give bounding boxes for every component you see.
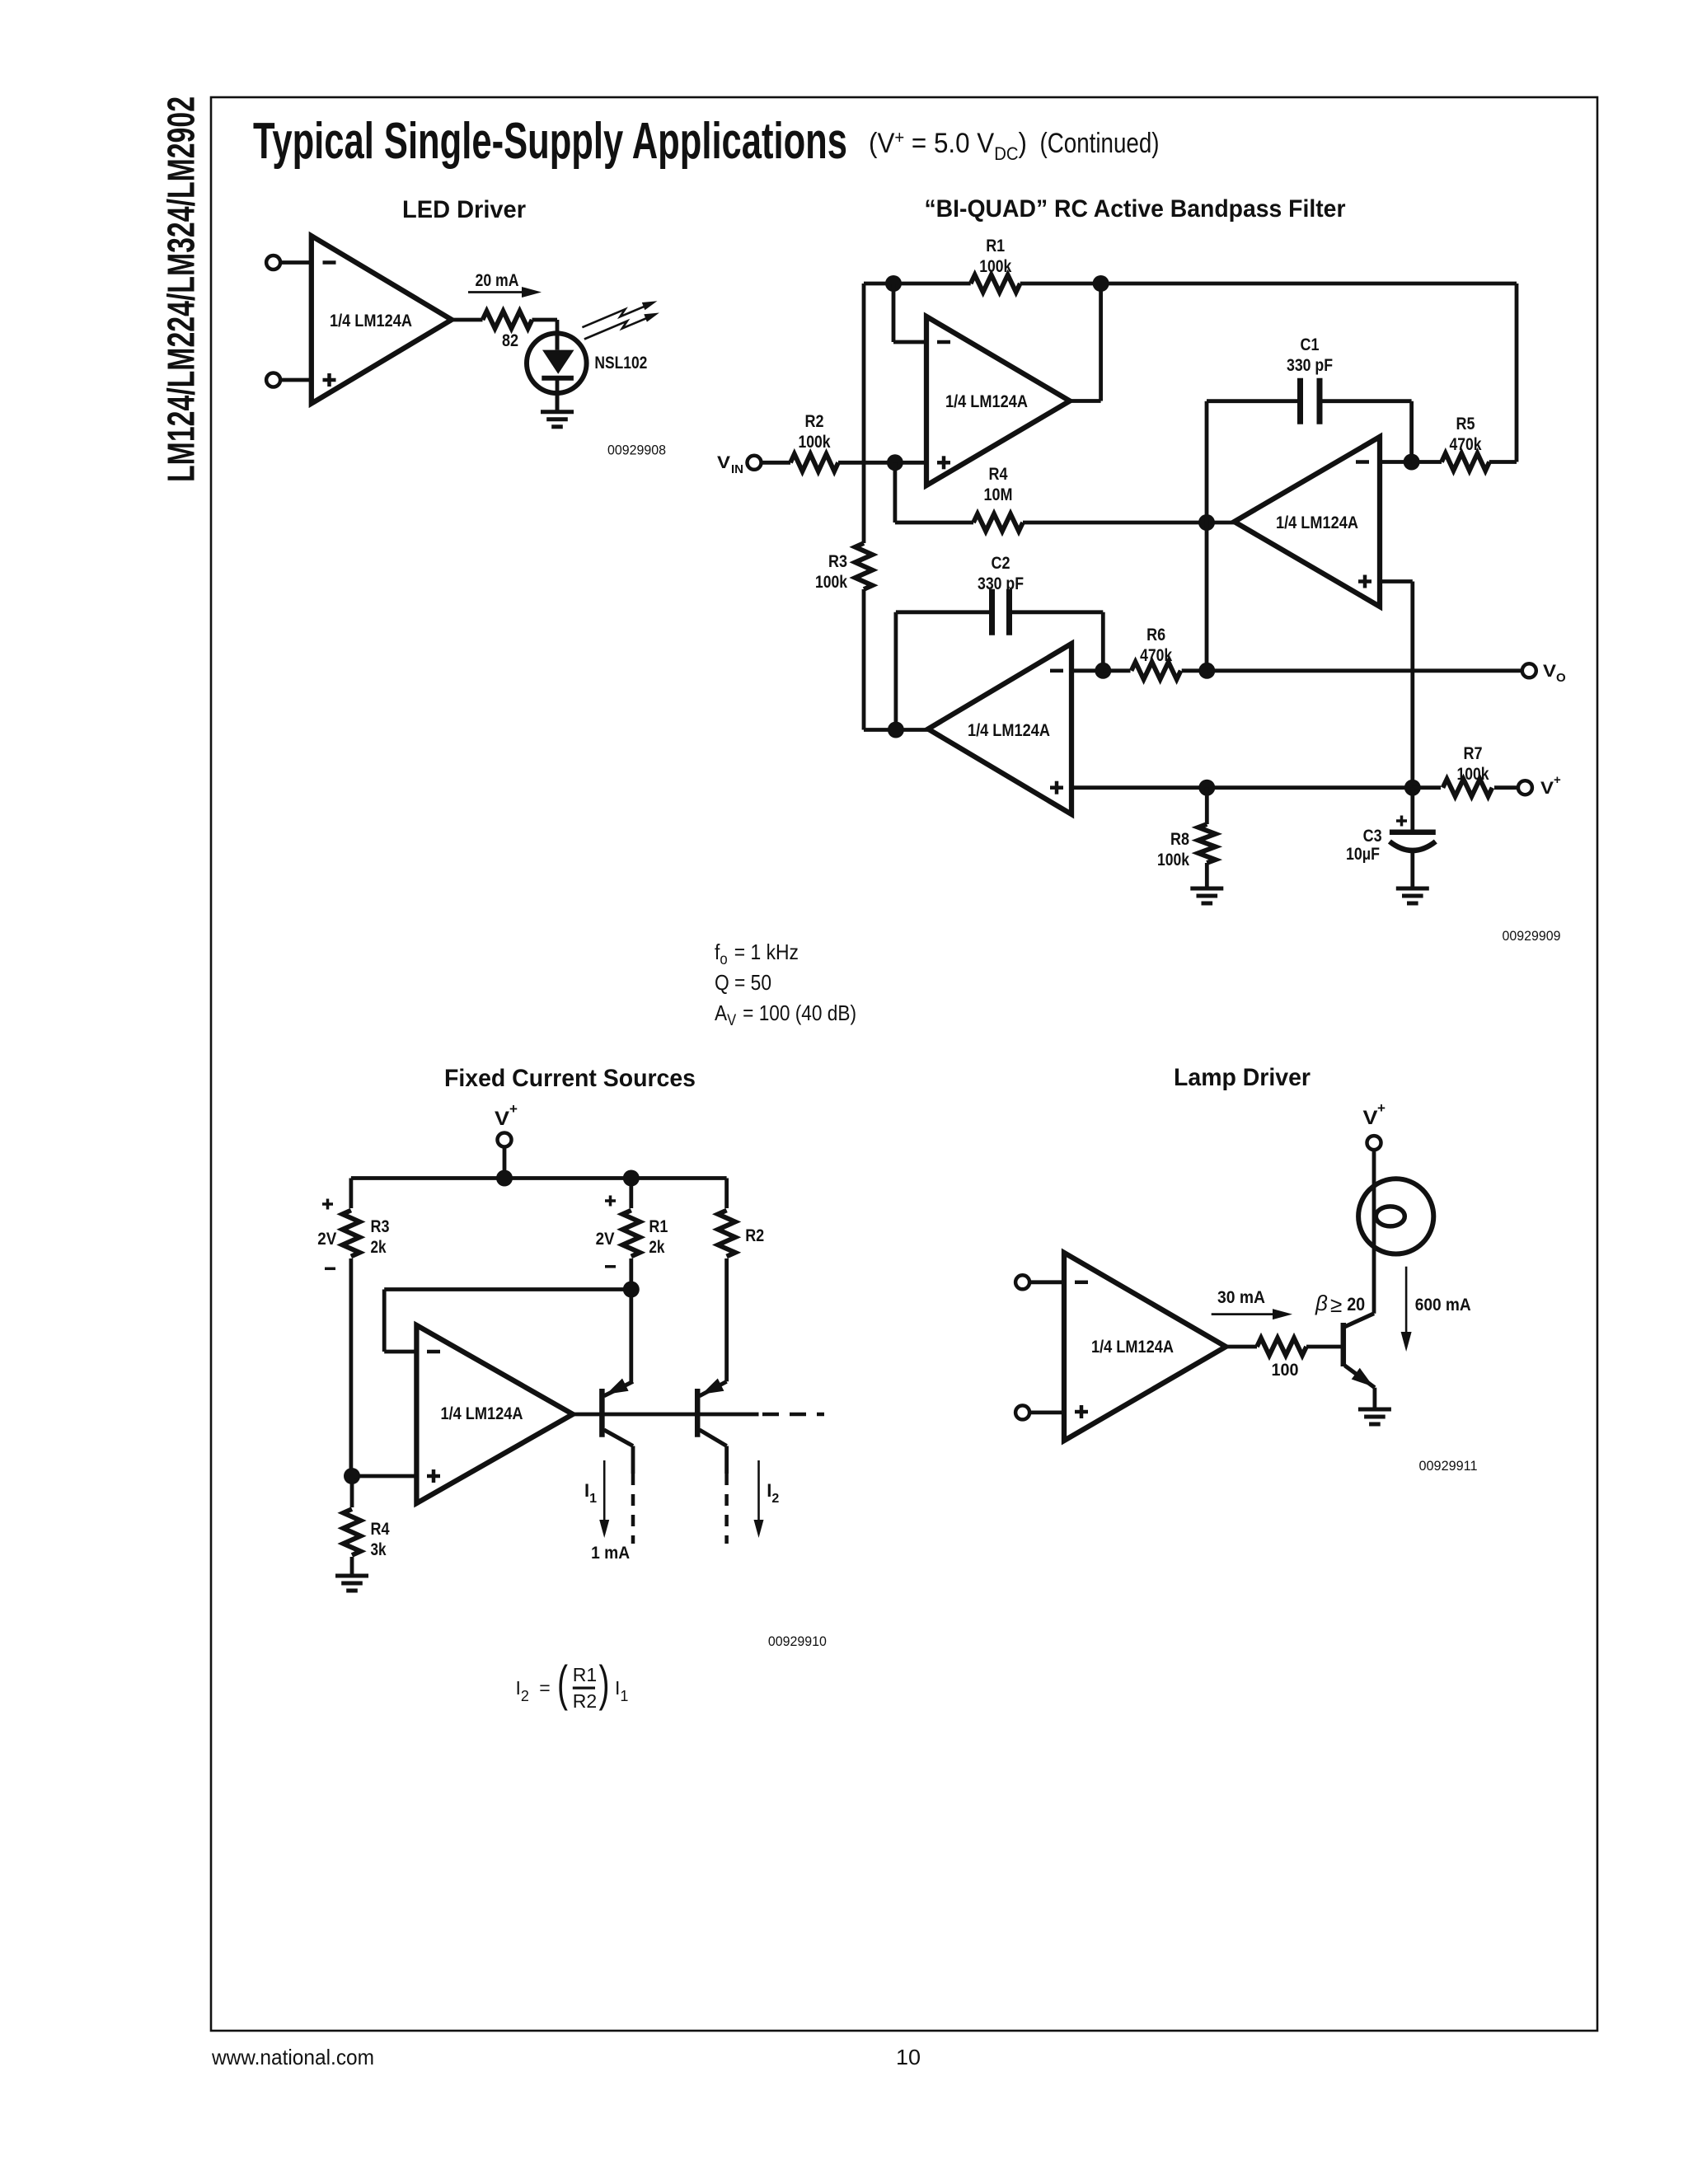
svg-text:1/4 LM124A: 1/4 LM124A xyxy=(968,721,1050,740)
svg-text:“BI-QUAD” RC Active Bandpass F: “BI-QUAD” RC Active Bandpass Filter xyxy=(925,195,1346,223)
svg-text:470k: 470k xyxy=(1450,435,1482,454)
svg-text:O: O xyxy=(1556,671,1566,685)
svg-text:V: V xyxy=(717,453,730,472)
svg-text:C2: C2 xyxy=(992,554,1010,573)
svg-text:1/4 LM124A: 1/4 LM124A xyxy=(945,392,1028,411)
svg-text:100k: 100k xyxy=(979,257,1011,276)
svg-text:R6: R6 xyxy=(1146,626,1165,644)
svg-text:Lamp Driver: Lamp Driver xyxy=(1174,1064,1311,1091)
svg-text:100: 100 xyxy=(1272,1361,1299,1380)
svg-text:470k: 470k xyxy=(1140,646,1172,665)
svg-text:R3: R3 xyxy=(828,552,847,571)
svg-text:(Continued): (Continued) xyxy=(1040,128,1160,159)
svg-text:+: + xyxy=(1554,773,1561,787)
svg-text:V: V xyxy=(1540,779,1554,798)
svg-text:IN: IN xyxy=(731,462,743,476)
svg-text:330 pF: 330 pF xyxy=(1287,356,1333,375)
svg-text:2V: 2V xyxy=(596,1230,615,1249)
svg-text:R1: R1 xyxy=(986,237,1005,255)
svg-text:R8: R8 xyxy=(1170,830,1189,849)
svg-text:+: + xyxy=(509,1101,518,1117)
svg-text:10: 10 xyxy=(896,2045,921,2069)
svg-text:1/4 LM124A: 1/4 LM124A xyxy=(330,312,412,330)
svg-text:): ) xyxy=(599,1656,610,1711)
svg-text:00929908: 00929908 xyxy=(607,443,666,458)
svg-text:Fixed Current Sources: Fixed Current Sources xyxy=(444,1065,696,1092)
svg-text:600 mA: 600 mA xyxy=(1415,1296,1471,1315)
svg-text:2k: 2k xyxy=(371,1238,387,1257)
svg-text:≥: ≥ xyxy=(1330,1292,1342,1317)
svg-text:V: V xyxy=(1543,662,1556,681)
svg-text:R4: R4 xyxy=(989,465,1008,484)
svg-text:LED Driver: LED Driver xyxy=(402,196,526,223)
svg-text:+: + xyxy=(1377,1100,1386,1116)
svg-text:100k: 100k xyxy=(799,433,831,452)
svg-text:3k: 3k xyxy=(371,1540,387,1559)
svg-text:LM124/LM224/LM324/LM2902: LM124/LM224/LM324/LM2902 xyxy=(160,96,203,482)
svg-text:20: 20 xyxy=(1347,1294,1365,1315)
svg-text:R7: R7 xyxy=(1464,744,1483,763)
svg-text:Q = 50: Q = 50 xyxy=(715,970,771,995)
svg-text:10M: 10M xyxy=(984,485,1013,504)
svg-text:100k: 100k xyxy=(1157,851,1189,869)
svg-text:100k: 100k xyxy=(1457,765,1489,784)
svg-text:330 pF: 330 pF xyxy=(978,574,1024,593)
svg-text:2V: 2V xyxy=(317,1230,336,1249)
svg-text:V: V xyxy=(1363,1107,1378,1129)
svg-text:10μF: 10μF xyxy=(1346,845,1380,864)
svg-text:82: 82 xyxy=(502,331,518,350)
svg-text:NSL102: NSL102 xyxy=(594,354,647,373)
svg-text:R1: R1 xyxy=(573,1664,597,1685)
svg-text:1/4 LM124A: 1/4 LM124A xyxy=(1091,1338,1174,1357)
svg-text:R1: R1 xyxy=(649,1217,668,1236)
svg-text:V: V xyxy=(495,1108,509,1130)
svg-text:R5: R5 xyxy=(1456,415,1475,434)
svg-text:100k: 100k xyxy=(815,573,847,592)
svg-text:00929911: 00929911 xyxy=(1419,1458,1478,1474)
svg-text:(: ( xyxy=(557,1656,568,1711)
svg-text:www.national.com: www.national.com xyxy=(211,2045,374,2069)
svg-text:R2: R2 xyxy=(805,412,824,431)
svg-text:R2: R2 xyxy=(745,1226,764,1245)
svg-text:20 mA: 20 mA xyxy=(476,271,519,290)
svg-text:R3: R3 xyxy=(371,1217,390,1236)
svg-text:R4: R4 xyxy=(371,1520,390,1539)
svg-text:1/4 LM124A: 1/4 LM124A xyxy=(441,1404,523,1423)
svg-text:R2: R2 xyxy=(573,1690,597,1712)
svg-text:Typical Single-Supply Applicat: Typical Single-Supply Applications xyxy=(253,113,847,170)
svg-text:00929910: 00929910 xyxy=(768,1633,827,1649)
svg-text:30 mA: 30 mA xyxy=(1217,1288,1265,1307)
svg-text:C3: C3 xyxy=(1363,827,1382,846)
svg-text:2k: 2k xyxy=(649,1238,664,1257)
svg-text:1/4 LM124A: 1/4 LM124A xyxy=(1276,513,1358,532)
svg-text:β: β xyxy=(1315,1291,1328,1315)
svg-text:00929909: 00929909 xyxy=(1503,928,1561,944)
svg-text:1 mA: 1 mA xyxy=(591,1544,630,1563)
svg-text:C1: C1 xyxy=(1301,335,1320,354)
